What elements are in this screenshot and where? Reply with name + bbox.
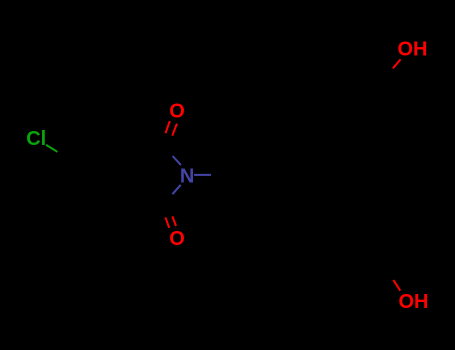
svg-text:O: O (169, 100, 185, 122)
svg-text:OH: OH (399, 291, 429, 313)
svg-text:OH: OH (398, 39, 428, 61)
svg-text:N: N (180, 165, 194, 187)
svg-text:Cl: Cl (26, 128, 46, 150)
svg-text:O: O (169, 228, 185, 250)
